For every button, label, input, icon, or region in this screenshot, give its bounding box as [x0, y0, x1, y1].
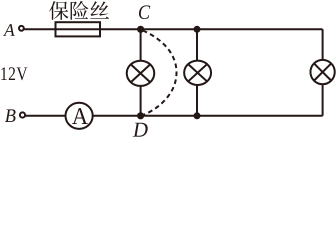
node D (junction dot) [137, 112, 144, 119]
fuse label text 险 (of 保险丝) [71, 1, 89, 20]
wire: bottom rail from terminal B through ammeter and node D to bottom-right corner [25, 115, 322, 117]
label D [133, 123, 148, 137]
lamp L1 [127, 61, 155, 86]
terminal B (open circle) [20, 112, 25, 117]
wire: branch 2 vertical (through lamp L2) [196, 29, 198, 116]
label 12V [1, 67, 27, 80]
lamp L2 [184, 61, 211, 85]
fuse F (rectangle over top wire) [56, 22, 101, 36]
ammeter A1 [66, 103, 93, 129]
junction dot at bottom of branch 2 [194, 112, 201, 119]
fuse label text 保 (of 保险丝) [49, 1, 68, 20]
label B [5, 109, 16, 122]
node C (junction dot) [137, 26, 144, 33]
wire: top rail from terminal A through fuse and node C to top-right corner [24, 28, 322, 30]
wire: right vertical side (through lamp L3) [322, 29, 324, 116]
junction dot at top of branch 2 [194, 26, 201, 33]
label C [139, 5, 150, 19]
terminal A (open circle) [19, 26, 24, 31]
wire: branch 1 vertical C to D (through lamp L1) [140, 29, 142, 116]
lamp L3 [310, 60, 334, 84]
fuse label text 丝 (of 保险丝) [90, 1, 109, 18]
dashed curve from C to D [143, 31, 177, 116]
label A [3, 24, 15, 36]
